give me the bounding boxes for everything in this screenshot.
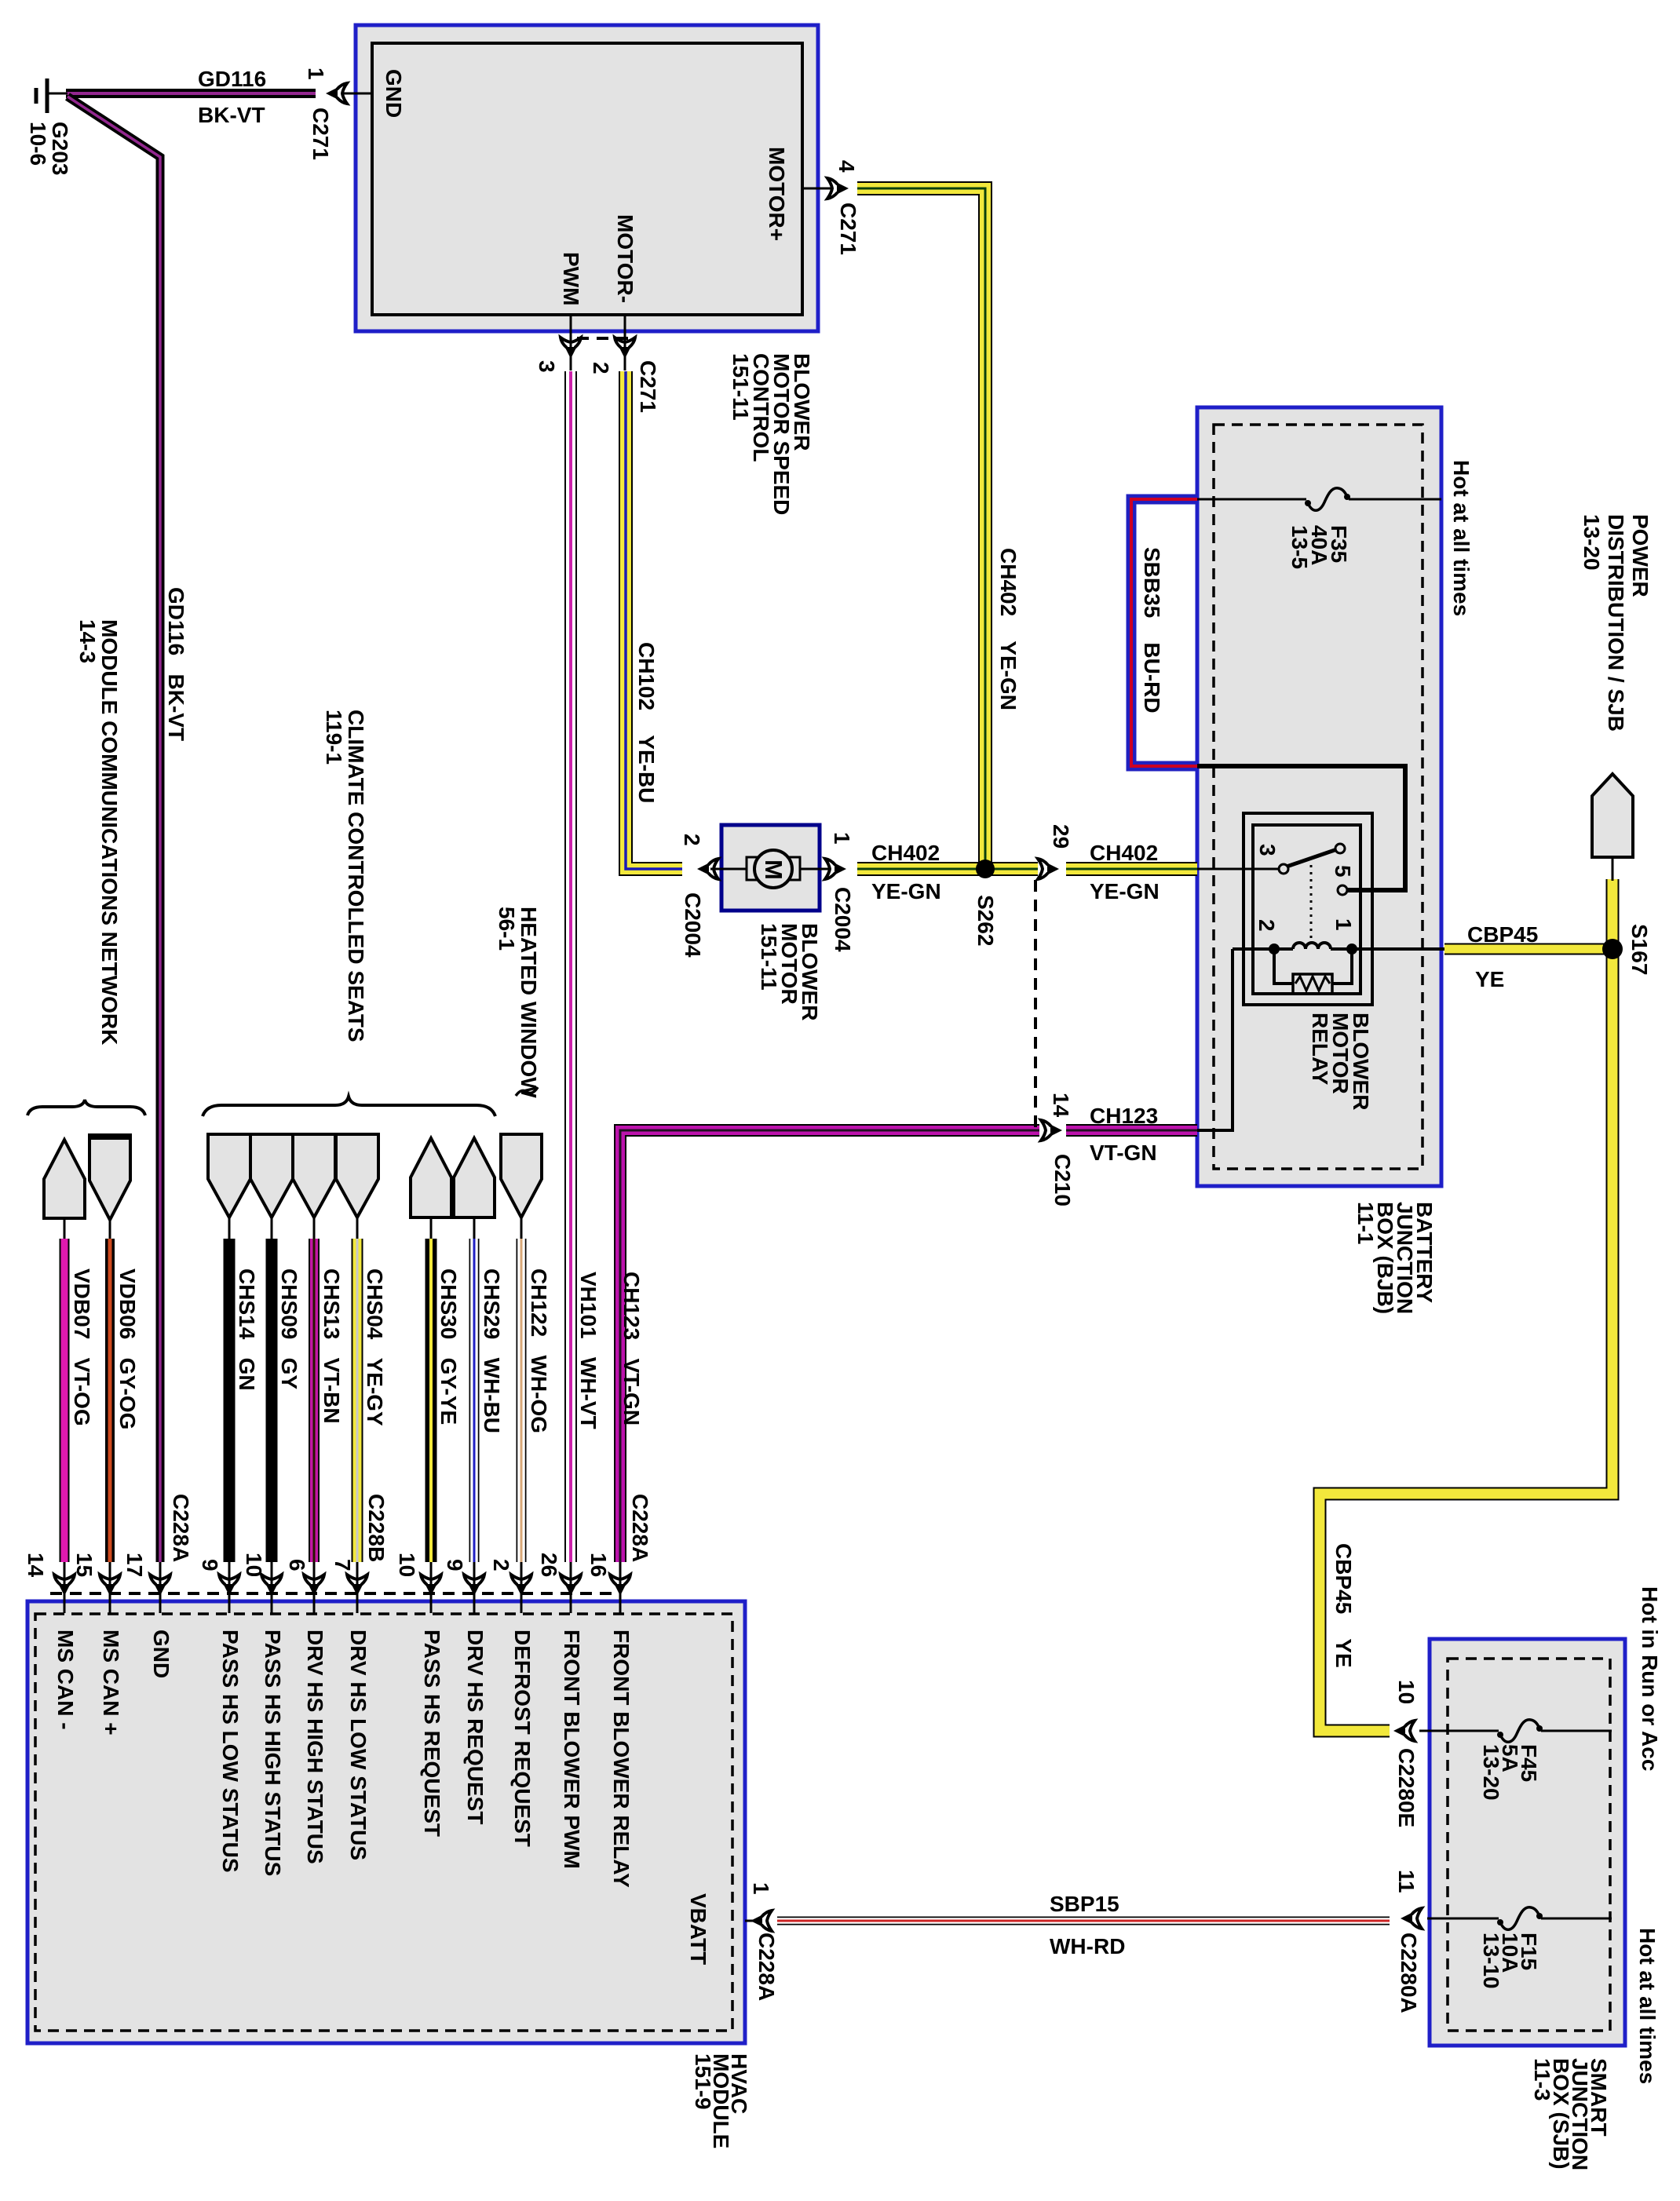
svg-text:Hot in Run or Acc: Hot in Run or Acc [1638, 1586, 1662, 1771]
svg-text:11: 11 [1394, 1870, 1419, 1893]
svg-text:C228A: C228A [754, 1933, 779, 2001]
svg-text:MOTOR+: MOTOR+ [765, 147, 789, 241]
svg-text:1: 1 [830, 832, 854, 845]
svg-text:C271: C271 [636, 360, 660, 413]
svg-text:CH402: CH402 [1090, 841, 1158, 865]
svg-text:GD116: GD116 [198, 67, 266, 91]
svg-text:3: 3 [535, 360, 559, 373]
svg-text:17: 17 [122, 1553, 147, 1577]
svg-text:10: 10 [242, 1553, 266, 1577]
svg-text:CH402: CH402 [871, 841, 940, 865]
svg-text:BK-VT: BK-VT [198, 103, 265, 127]
svg-text:10: 10 [395, 1553, 419, 1577]
svg-text:CBP45 YE: CBP45 YE [1331, 1543, 1356, 1668]
svg-text:DRV HS REQUEST: DRV HS REQUEST [463, 1630, 488, 1824]
svg-text:C2004: C2004 [831, 887, 855, 952]
svg-text:CH102 YE-BU: CH102 YE-BU [634, 642, 659, 803]
svg-text:FRONT BLOWER RELAY: FRONT BLOWER RELAY [609, 1630, 634, 1888]
svg-text:16: 16 [586, 1553, 611, 1577]
svg-text:YE-GN: YE-GN [1090, 879, 1160, 903]
svg-text:C2004: C2004 [681, 892, 705, 958]
svg-text:VBATT: VBATT [686, 1893, 710, 1965]
svg-text:MS CAN +: MS CAN + [99, 1630, 123, 1736]
svg-text:CHS29 WH-BU: CHS29 WH-BU [480, 1268, 504, 1433]
svg-text:C210: C210 [1050, 1154, 1075, 1206]
svg-text:MS CAN -: MS CAN - [53, 1630, 78, 1730]
svg-text:CHS09 GY: CHS09 GY [277, 1268, 301, 1389]
svg-text:7: 7 [331, 1559, 355, 1571]
svg-text:CHS14 GN: CHS14 GN [235, 1268, 259, 1391]
svg-text:YE: YE [1475, 967, 1504, 991]
svg-text:Hot at all times: Hot at all times [1635, 1928, 1660, 2084]
svg-text:3: 3 [1255, 844, 1280, 856]
svg-text:10: 10 [1394, 1680, 1419, 1704]
svg-text:CH123 VT-GN: CH123 VT-GN [619, 1272, 644, 1425]
svg-text:C2280A: C2280A [1397, 1933, 1421, 2013]
svg-text:PASS HS LOW STATUS: PASS HS LOW STATUS [218, 1630, 243, 1873]
svg-text:26: 26 [537, 1553, 561, 1577]
svg-text:CH123: CH123 [1090, 1104, 1158, 1128]
svg-text:PASS HS HIGH STATUS: PASS HS HIGH STATUS [261, 1630, 285, 1876]
svg-text:S167: S167 [1627, 924, 1652, 975]
svg-text:C228A: C228A [628, 1494, 652, 1562]
svg-text:C2280E: C2280E [1394, 1748, 1419, 1827]
svg-text:C271: C271 [836, 203, 860, 255]
svg-text:PWM: PWM [559, 252, 583, 305]
svg-text:YE-GN: YE-GN [871, 879, 941, 903]
svg-text:S262: S262 [973, 895, 998, 946]
svg-text:DEFROST REQUEST: DEFROST REQUEST [510, 1630, 535, 1847]
svg-text:GD116 BK-VT: GD116 BK-VT [164, 587, 188, 741]
svg-text:CBP45: CBP45 [1467, 922, 1538, 947]
svg-text:2: 2 [1255, 919, 1279, 932]
svg-text:29: 29 [1049, 824, 1073, 849]
svg-text:SBP15: SBP15 [1050, 1892, 1119, 1916]
svg-text:CHS13 VT-BN: CHS13 VT-BN [320, 1268, 344, 1424]
svg-text:Hot at all times: Hot at all times [1449, 460, 1474, 616]
svg-text:GND: GND [149, 1630, 173, 1678]
svg-text:WH-RD: WH-RD [1050, 1934, 1125, 1958]
svg-text:PASS HS REQUEST: PASS HS REQUEST [420, 1630, 444, 1837]
svg-text:1: 1 [749, 1882, 773, 1895]
svg-text:1: 1 [304, 68, 328, 80]
svg-text:C228B: C228B [364, 1494, 389, 1562]
svg-text:C271: C271 [309, 108, 333, 160]
svg-text:2: 2 [489, 1559, 513, 1571]
svg-text:CHS30 GY-YE: CHS30 GY-YE [436, 1268, 461, 1425]
svg-text:DRV HS HIGH STATUS: DRV HS HIGH STATUS [303, 1630, 327, 1864]
svg-text:VT-GN: VT-GN [1090, 1141, 1157, 1165]
svg-text:F3540A13-5: F3540A13-5 [1287, 525, 1351, 569]
svg-text:5: 5 [1331, 865, 1355, 878]
svg-text:VDB07 VT-OG: VDB07 VT-OG [70, 1268, 94, 1426]
svg-text:1: 1 [1331, 918, 1356, 931]
svg-text:M: M [760, 860, 787, 880]
svg-text:DRV HS LOW STATUS: DRV HS LOW STATUS [346, 1630, 371, 1860]
svg-text:SBB35 BU-RD: SBB35 BU-RD [1140, 547, 1164, 714]
svg-text:VDB06 GY-OG: VDB06 GY-OG [115, 1268, 140, 1429]
svg-text:MOTOR-: MOTOR- [613, 214, 637, 303]
svg-text:6: 6 [285, 1559, 309, 1571]
svg-text:VH101 WH-VT: VH101 WH-VT [576, 1272, 601, 1429]
svg-text:CH402 YE-GN: CH402 YE-GN [996, 548, 1021, 710]
svg-text:9: 9 [443, 1559, 467, 1571]
svg-text:14: 14 [1049, 1093, 1073, 1118]
svg-text:9: 9 [198, 1559, 222, 1571]
svg-text:14: 14 [24, 1553, 48, 1578]
svg-text:2: 2 [589, 362, 613, 374]
svg-text:4: 4 [835, 160, 859, 173]
svg-text:2: 2 [680, 834, 704, 846]
svg-text:15: 15 [72, 1553, 97, 1577]
svg-text:CHS04 YE-GY: CHS04 YE-GY [363, 1268, 387, 1426]
svg-text:GND: GND [382, 69, 406, 118]
svg-text:FRONT BLOWER PWM: FRONT BLOWER PWM [560, 1630, 584, 1869]
svg-text:CH122 WH-OG: CH122 WH-OG [527, 1268, 551, 1433]
svg-text:C228A: C228A [169, 1494, 193, 1562]
